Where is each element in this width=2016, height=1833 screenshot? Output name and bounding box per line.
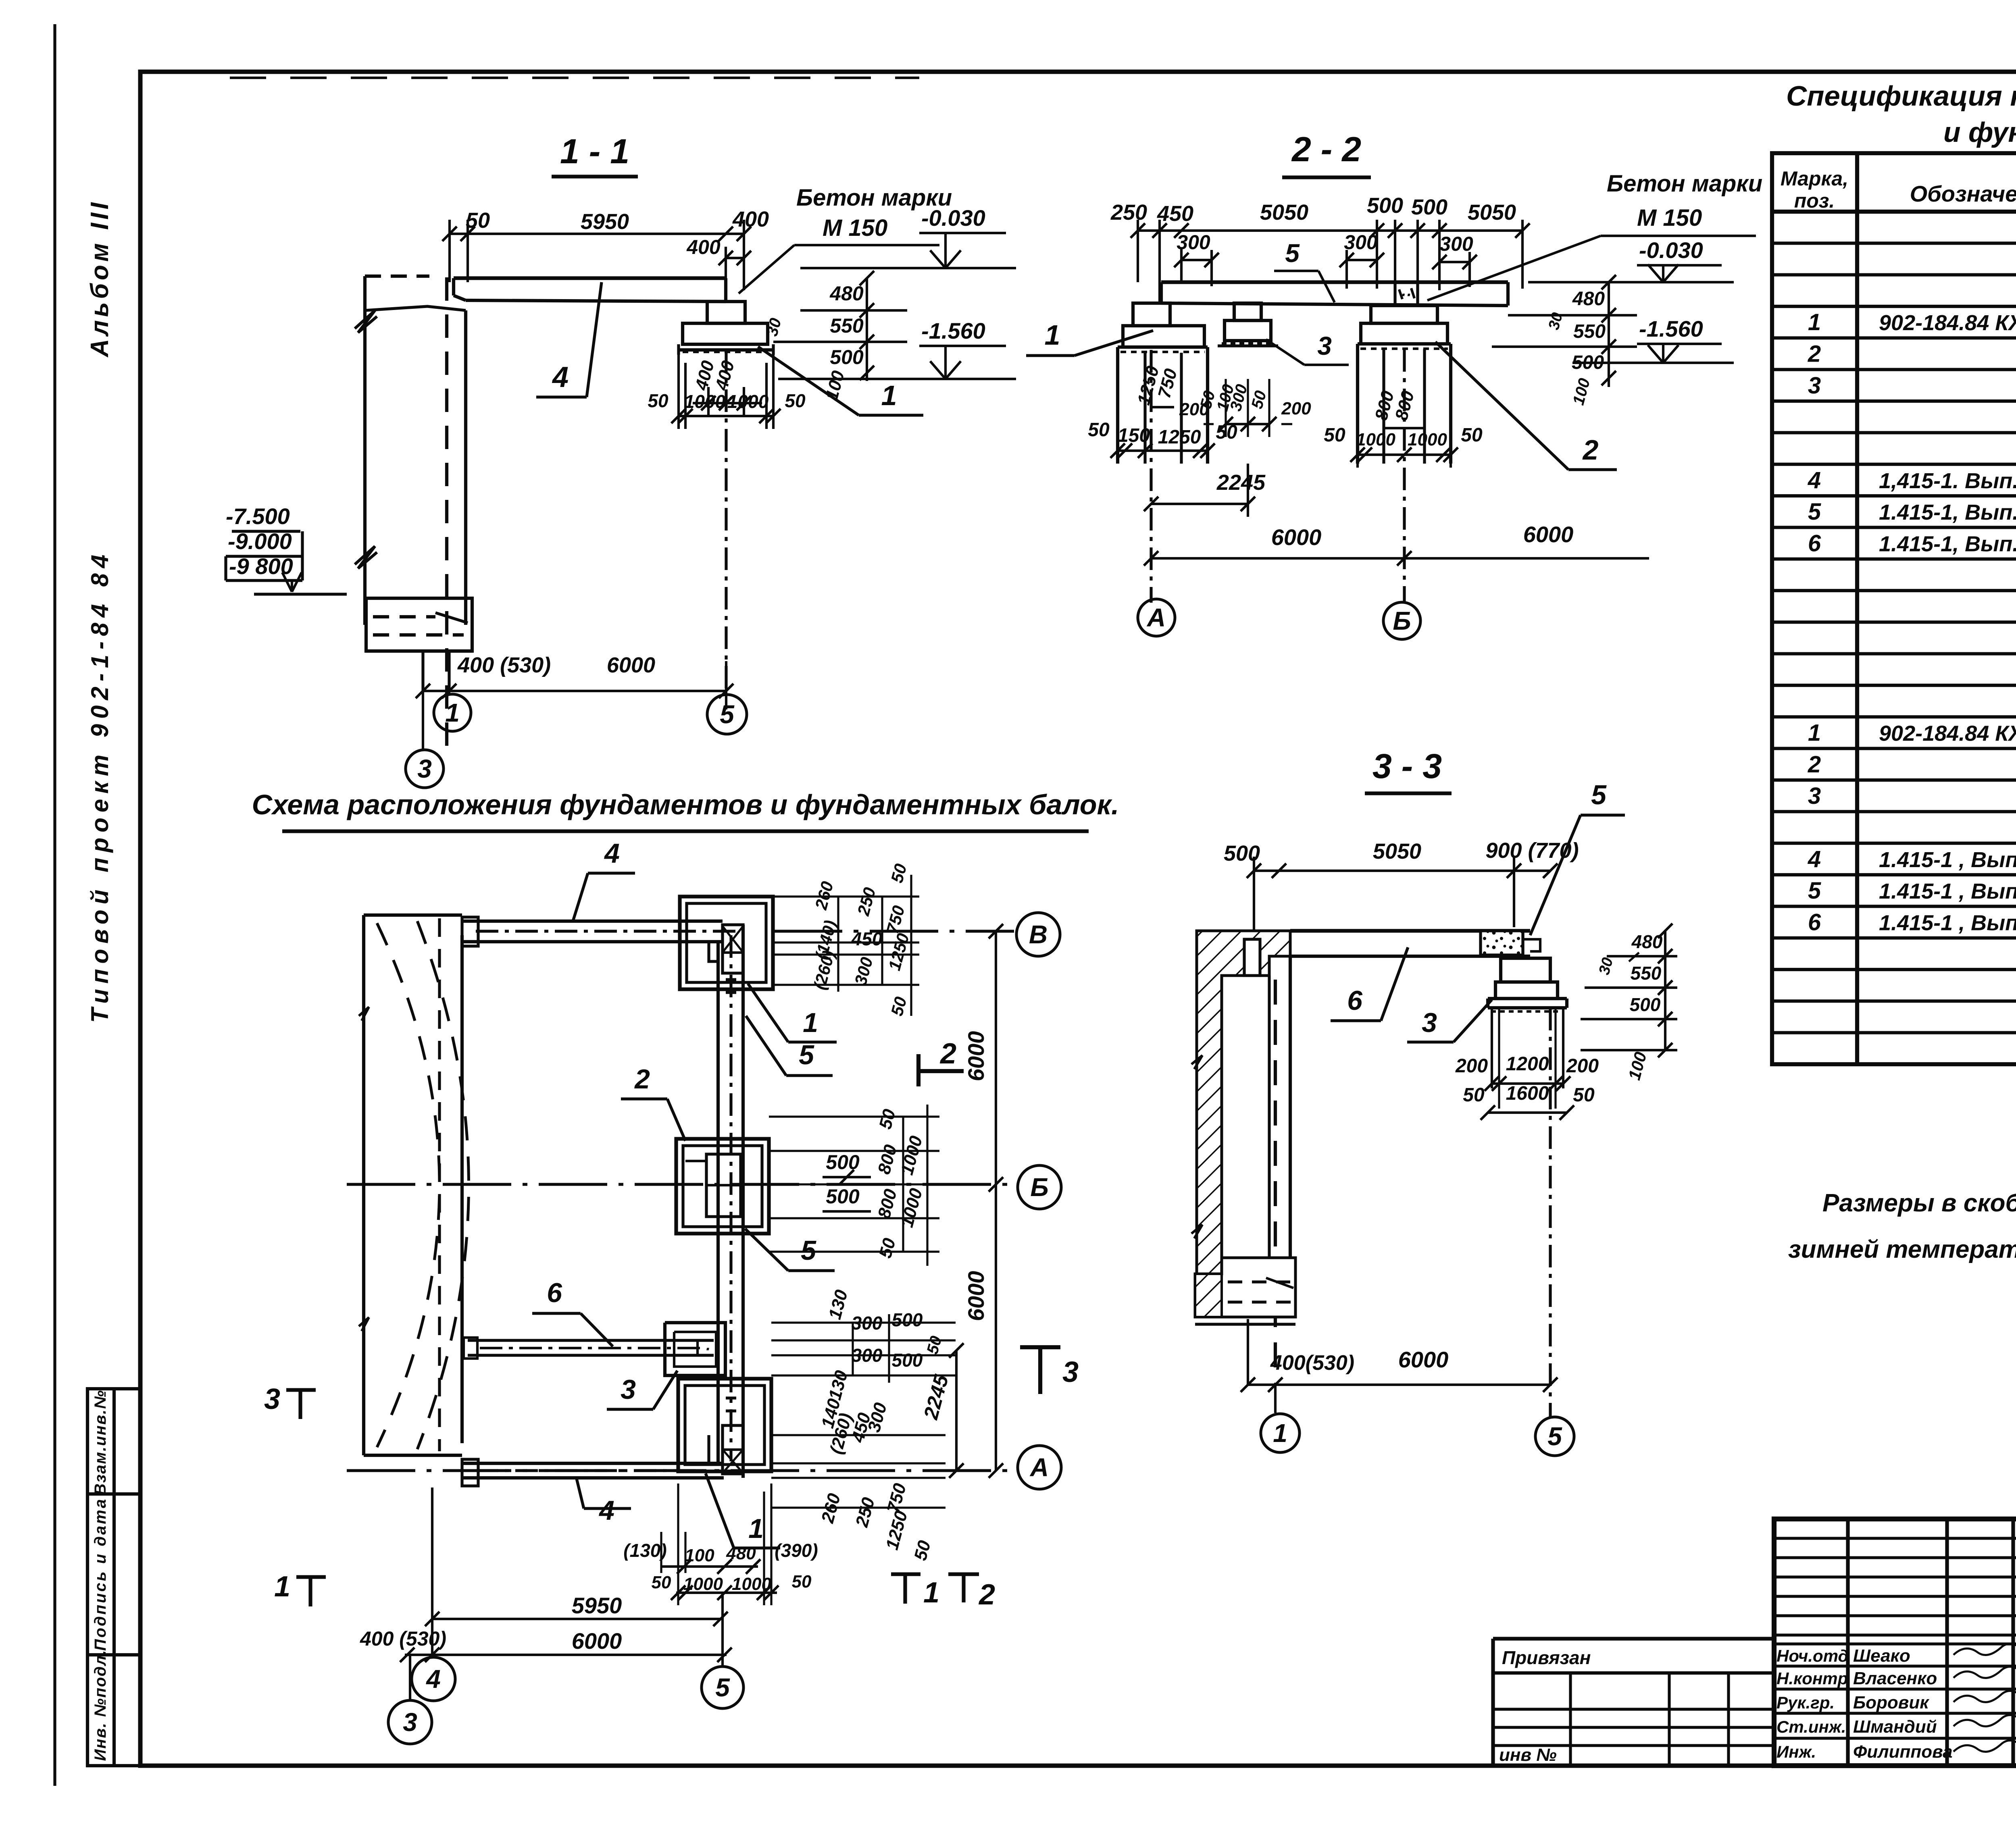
svg-text:1.415-1 , Вып.1: 1.415-1 , Вып.1 (1879, 848, 2016, 872)
svg-text:1: 1 (1273, 1419, 1287, 1448)
svg-text:1: 1 (445, 698, 460, 727)
svg-text:500: 500 (892, 1350, 923, 1371)
svg-text:Б: Б (1393, 606, 1411, 635)
svg-text:3: 3 (403, 1708, 417, 1737)
svg-text:1: 1 (1808, 720, 1821, 746)
plan: axis B line (347, 1183, 1015, 1186)
svg-text:902-184.84 КЖ л.: 902-184.84 КЖ л. (1879, 722, 2016, 746)
plan: pier inside axis B (706, 1154, 741, 1217)
svg-text:и фундаментных балок.: и фундаментных балок. (1943, 117, 2016, 148)
svg-text:5050: 5050 (1260, 200, 1308, 225)
svg-text:1000: 1000 (727, 391, 769, 412)
svg-text:1600: 1600 (1506, 1083, 1549, 1104)
svg-text:1250: 1250 (1158, 427, 1201, 448)
plan: beam 4 bottom row A (462, 1462, 724, 1465)
svg-text:300: 300 (1439, 233, 1473, 255)
svg-text:150: 150 (1118, 425, 1150, 446)
svg-text:5: 5 (1808, 878, 1821, 904)
svg-text:480: 480 (1631, 931, 1663, 952)
svg-text:1: 1 (881, 380, 897, 411)
svg-text:480: 480 (1572, 288, 1605, 310)
svg-text:2: 2 (1582, 434, 1599, 466)
svg-text:6000: 6000 (1271, 524, 1322, 550)
svg-text:Подпись и дата: Подпись и дата (92, 1498, 109, 1651)
3-3 wall: top cap hatched (1197, 931, 1290, 1274)
svg-text:400: 400 (686, 236, 721, 258)
2-2 middle foundation block (1225, 320, 1271, 341)
svg-text:Взам.инв.№: Взам.инв.№ (92, 1390, 109, 1495)
plan: axis dim verticals 6000/6000 (995, 931, 997, 1471)
svg-text:3: 3 (1422, 1007, 1437, 1038)
svg-text:1: 1 (1808, 309, 1821, 335)
svg-text:1.415-1, Вып.1: 1.415-1, Вып.1 (1879, 532, 2016, 556)
svg-text:Ноч.отд: Ноч.отд (1776, 1646, 1848, 1665)
2-2 left foundation top slab (1123, 326, 1204, 347)
3-3 wall axis verticals down (1247, 1319, 1249, 1385)
svg-text:2: 2 (634, 1064, 650, 1094)
svg-text:550: 550 (830, 314, 864, 337)
svg-text:500: 500 (1630, 994, 1661, 1015)
plan: beam end bracket top (462, 917, 478, 946)
3-3 slab beam 6 (1290, 929, 1530, 932)
3-3 concrete patch on slab (1481, 931, 1523, 955)
svg-text:5950: 5950 (572, 1593, 622, 1618)
svg-text:Спецификация к схеме распол: Спецификация к схеме расположения фундам… (1786, 80, 2016, 112)
1-1 wall footing (366, 598, 472, 651)
svg-text:5: 5 (720, 700, 735, 729)
svg-text:1: 1 (923, 1577, 939, 1609)
svg-text:902-184.84 КЖл.: 902-184.84 КЖл. (1879, 311, 2016, 335)
svg-text:-0.030: -0.030 (921, 205, 985, 231)
svg-text:1000: 1000 (683, 1574, 723, 1594)
svg-text:400 (530): 400 (530) (457, 653, 551, 677)
svg-text:5950: 5950 (581, 210, 629, 234)
plan: wall inner dashed lines (438, 918, 441, 1451)
svg-text:5: 5 (715, 1673, 730, 1702)
1-1 axis circle 1 (448, 691, 450, 695)
svg-text:6: 6 (1808, 909, 1821, 936)
2-2 top dimension line (1138, 229, 1522, 232)
margin stamp boxes (87, 1389, 140, 1766)
svg-text:Инв. №подл.: Инв. №подл. (92, 1650, 109, 1761)
plan: bottom axis circle 3 (409, 1655, 411, 1700)
3-3 below-foundation dims (1491, 1009, 1493, 1088)
svg-text:5: 5 (1285, 239, 1300, 268)
svg-text:2 - 2: 2 - 2 (1291, 130, 1361, 169)
1-1 foundation Fm (683, 323, 768, 344)
svg-text:50: 50 (652, 1573, 671, 1592)
plan: bottom axis circle 5 (721, 1593, 724, 1667)
svg-text:Бетон марки: Бетон марки (1607, 171, 1762, 197)
3-3 elevation marks (1556, 930, 1677, 931)
svg-text:4: 4 (604, 838, 620, 869)
1-1 pier under beam (707, 302, 745, 323)
svg-text:1200: 1200 (1506, 1053, 1549, 1075)
svg-text:50: 50 (1461, 424, 1483, 446)
1-1 axis circle 3 (422, 691, 424, 750)
plan: vertical beam 5 (716, 942, 720, 1463)
outer trim line left (53, 24, 56, 1786)
svg-text:1: 1 (748, 1513, 764, 1544)
svg-text:500: 500 (826, 1151, 860, 1173)
svg-text:··: ·· (1401, 286, 1412, 304)
svg-text:Размеры в скобках даны для: Размеры в скобках даны для расчетной (1822, 1189, 2016, 1217)
plan: pier mark row V (723, 925, 743, 973)
svg-text:Шеако: Шеако (1853, 1646, 1910, 1666)
plan: wall break marks (359, 1007, 369, 1021)
plan: tank dashed arcs (377, 923, 439, 1447)
svg-text:3: 3 (1317, 331, 1332, 360)
svg-text:Привязан: Привязан (1502, 1647, 1591, 1668)
2-2 axis circle A (1138, 599, 1175, 636)
svg-text:450: 450 (851, 928, 883, 949)
svg-text:2: 2 (1808, 751, 1821, 778)
svg-text:6000: 6000 (963, 1031, 989, 1082)
plan: right dim lines top (773, 895, 919, 897)
svg-text:Боровик: Боровик (1853, 1693, 1930, 1712)
1-1 axis circle 5 (726, 695, 727, 709)
svg-text:300: 300 (1344, 231, 1378, 254)
svg-text:-7.500: -7.500 (226, 504, 290, 529)
svg-text:-9.000: -9.000 (228, 528, 292, 554)
svg-text:2: 2 (939, 1038, 956, 1070)
1-1 top dimension line 50/5950/400 (450, 233, 744, 235)
plan: foundation 3 box (665, 1323, 725, 1375)
1-1 foundation beam 4 (454, 276, 726, 280)
svg-text:4: 4 (425, 1664, 441, 1694)
title block small rows left part (1774, 1537, 2016, 1540)
plan: foundation square row A (678, 1379, 771, 1471)
svg-text:3 - 3: 3 - 3 (1372, 747, 1442, 786)
svg-text:М 150: М 150 (823, 215, 887, 241)
svg-text:250: 250 (1110, 200, 1147, 225)
svg-text:500: 500 (892, 1309, 923, 1330)
svg-text:200: 200 (1179, 399, 1209, 419)
svg-text:Б: Б (1030, 1173, 1048, 1202)
svg-text:1000: 1000 (1356, 430, 1395, 449)
svg-text:Обозначение: Обозначение (1910, 181, 2016, 206)
plan: axis V line (774, 930, 1014, 932)
frame top inner dashed artifact (230, 77, 919, 79)
svg-text:Власенко: Власенко (1853, 1669, 1937, 1688)
plan: axis circle A (1018, 1446, 1061, 1489)
svg-text:500: 500 (1411, 195, 1447, 219)
title block left extension (privyazan) (1493, 1637, 1774, 1640)
svg-text:5: 5 (1808, 499, 1821, 525)
plan: foundation square row V (680, 897, 773, 989)
plan: bottom axis circle 4 (412, 1657, 455, 1701)
svg-text:3: 3 (1062, 1356, 1079, 1388)
svg-text:5: 5 (799, 1040, 814, 1070)
svg-text:50: 50 (466, 208, 490, 233)
svg-text:5: 5 (801, 1235, 816, 1266)
svg-text:1.415-1 , Вып.1: 1.415-1 , Вып.1 (1879, 879, 2016, 903)
3-3 wall footing (1195, 1258, 1295, 1317)
svg-text:500: 500 (830, 346, 864, 368)
svg-text:50: 50 (785, 390, 806, 411)
svg-text:-1.560: -1.560 (921, 318, 985, 343)
svg-text:Шмандий: Шмандий (1853, 1717, 1937, 1737)
svg-text:200: 200 (1455, 1055, 1488, 1077)
svg-text:1: 1 (1045, 319, 1060, 351)
title block role rows (1774, 1642, 2016, 1645)
svg-text:-0.030: -0.030 (1639, 237, 1703, 263)
svg-text:1: 1 (274, 1571, 290, 1603)
3-3 pier steps (1501, 958, 1550, 982)
svg-text:Инж.: Инж. (1776, 1742, 1816, 1761)
2-2 extension verticals (1137, 220, 1139, 282)
svg-text:6000: 6000 (963, 1271, 989, 1321)
2-2 elevation dims (1608, 282, 1610, 387)
svg-text:50: 50 (1088, 419, 1110, 441)
svg-text:1: 1 (803, 1007, 818, 1038)
3-3 wall break marks (1191, 1055, 1202, 1069)
plan: beam 6 middle (468, 1339, 714, 1342)
svg-text:М 150: М 150 (1637, 205, 1702, 231)
svg-text:550: 550 (1631, 963, 1662, 984)
svg-text:5: 5 (1591, 780, 1607, 810)
svg-text:Марка,: Марка, (1781, 167, 1848, 190)
svg-text:4: 4 (1808, 846, 1821, 872)
svg-text:200: 200 (1566, 1055, 1599, 1077)
svg-text:1000: 1000 (1408, 430, 1447, 449)
svg-text:поз.: поз. (1794, 189, 1835, 212)
svg-text:200: 200 (1281, 399, 1311, 418)
svg-text:Филиппова: Филиппова (1853, 1742, 1953, 1762)
plan: building wall band (364, 913, 462, 917)
3-3 top dimension line (1254, 870, 1550, 872)
svg-text:А: А (1146, 603, 1166, 632)
3-3 wall inner line (1289, 956, 1292, 1258)
3-3 wall centerline dashed (1274, 980, 1277, 1383)
svg-text:В: В (1029, 920, 1048, 949)
2-2 left foundation body (1118, 345, 1208, 349)
svg-text:6: 6 (1347, 985, 1363, 1016)
svg-text:1,415-1. Вып.1: 1,415-1. Вып.1 (1879, 469, 2016, 493)
2-2 axis centerlines down (1150, 350, 1152, 603)
svg-text:450: 450 (1157, 202, 1193, 226)
svg-text:зимней температуры - 40°С.: зимней температуры - 40°С. (1788, 1236, 2016, 1263)
1-1 wall centerline (445, 277, 448, 751)
svg-text:Схема расположения фундаменто: Схема расположения фундаментов и фундаме… (252, 789, 1119, 820)
svg-text:400 (530): 400 (530) (360, 1627, 446, 1650)
svg-text:2: 2 (1808, 341, 1821, 367)
3-3 axis circle 5 (1535, 1417, 1574, 1456)
svg-text:1.415-1 , Вып.1: 1.415-1 , Вып.1 (1879, 911, 2016, 935)
2-2 right foundation body (1358, 342, 1451, 345)
2-2 right foundation top slab (1361, 323, 1447, 344)
svg-text:6000: 6000 (1523, 522, 1574, 547)
svg-text:3: 3 (264, 1383, 280, 1415)
2-2 left foundation Fm1: pier (1133, 303, 1170, 326)
3-3 foundation flange (1488, 997, 1567, 1000)
svg-text:инв №: инв № (1499, 1745, 1557, 1765)
plan: axis circle B (1018, 1165, 1061, 1209)
2-2 right foundation Fm2 pier (1371, 306, 1437, 323)
svg-text:400: 400 (732, 207, 769, 231)
2-2 axis circle B (1383, 602, 1420, 639)
2-2 foundation beam slab (1161, 280, 1508, 284)
3-3 axis circle 1 (1261, 1414, 1300, 1452)
svg-text:1.415-1, Вып.1: 1.415-1, Вып.1 (1879, 500, 2016, 524)
1-1 wall section (365, 275, 429, 278)
title block outer (1774, 1519, 2016, 1766)
title block signatures squiggles (1954, 1644, 2016, 1655)
1-1 foundation axis centerline (725, 350, 727, 695)
2-2 anchor marks at joint (1399, 289, 1402, 299)
svg-text:3: 3 (417, 754, 432, 783)
svg-text:50: 50 (792, 1572, 812, 1592)
svg-text:6000: 6000 (1398, 1347, 1449, 1372)
1-1 wall break marks (355, 310, 377, 333)
3-3 foundation centerline down (1549, 1008, 1552, 1417)
svg-text:2: 2 (978, 1579, 995, 1611)
svg-text:3: 3 (1808, 372, 1821, 399)
plan: axis circle V (1016, 913, 1060, 956)
svg-text:500: 500 (826, 1185, 860, 1208)
svg-text:500: 500 (1572, 352, 1604, 373)
svg-text:6: 6 (1808, 531, 1821, 557)
svg-text:Н.контр: Н.контр (1776, 1669, 1848, 1688)
svg-text:4: 4 (552, 361, 569, 393)
plan: beam 4 top row V (462, 920, 723, 923)
svg-text:500: 500 (1367, 193, 1403, 218)
svg-text:Типовой проект 902-1-84 84: Типовой проект 902-1-84 84 (86, 549, 113, 1023)
svg-text:50: 50 (648, 390, 669, 411)
svg-text:50: 50 (1463, 1084, 1485, 1106)
svg-text:550: 550 (1573, 321, 1606, 342)
svg-text:6000: 6000 (607, 653, 655, 677)
svg-text:-1.560: -1.560 (1639, 316, 1703, 341)
svg-text:Альбом III: Альбом III (86, 199, 114, 358)
3-3 wall notch white (1244, 939, 1260, 976)
svg-text:3: 3 (1808, 783, 1821, 809)
svg-text:2245: 2245 (1216, 470, 1266, 495)
1-1 dim 400 small (726, 257, 744, 259)
svg-text:50: 50 (1324, 424, 1345, 446)
svg-text:4: 4 (598, 1495, 614, 1526)
svg-text:Рук.гр.: Рук.гр. (1776, 1693, 1835, 1712)
plan: axis A line (347, 1469, 1015, 1472)
2-2 middle foundation Fm3 pier (1234, 303, 1261, 320)
svg-text:5: 5 (1547, 1422, 1562, 1451)
svg-text:6: 6 (547, 1277, 562, 1308)
svg-text:3: 3 (621, 1374, 636, 1405)
svg-text:1000: 1000 (684, 391, 726, 412)
svg-text:1 - 1: 1 - 1 (560, 132, 629, 171)
title block left grid columns (1846, 1519, 1849, 1766)
plan: foundation square axis B (676, 1139, 769, 1234)
svg-text:4: 4 (1808, 467, 1821, 493)
svg-text:(390): (390) (775, 1540, 818, 1561)
1-1 elevation dims 480/550/500 (866, 278, 868, 381)
svg-text:А: А (1029, 1453, 1049, 1482)
svg-text:6000: 6000 (572, 1628, 622, 1654)
svg-text:400(530): 400(530) (1270, 1351, 1354, 1375)
svg-text:50: 50 (1573, 1084, 1595, 1106)
svg-text:Ст.инж.: Ст.инж. (1776, 1717, 1846, 1736)
spec table grid (1772, 153, 2016, 1064)
svg-text:5050: 5050 (1373, 839, 1421, 863)
svg-text:·: · (705, 1340, 710, 1358)
svg-text:480: 480 (829, 282, 864, 305)
svg-text:500: 500 (1224, 841, 1260, 866)
svg-text:5050: 5050 (1468, 200, 1516, 225)
